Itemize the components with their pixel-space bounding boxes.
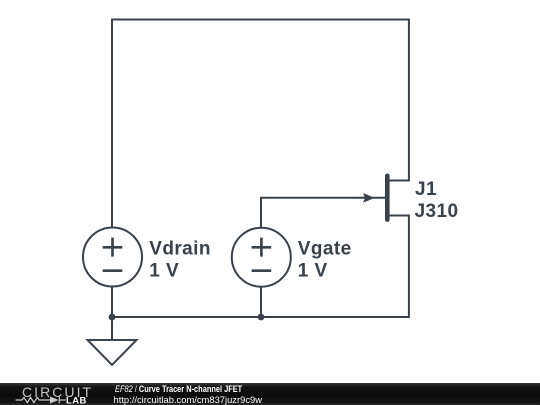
svg-text:LAB: LAB: [66, 394, 87, 405]
svg-text:Vgate: Vgate: [298, 238, 352, 259]
svg-text:J1: J1: [415, 179, 437, 200]
svg-text:Vdrain: Vdrain: [149, 238, 211, 259]
svg-text:1 V: 1 V: [298, 260, 328, 281]
svg-text:1 V: 1 V: [149, 260, 179, 281]
svg-text:J310: J310: [415, 201, 459, 222]
